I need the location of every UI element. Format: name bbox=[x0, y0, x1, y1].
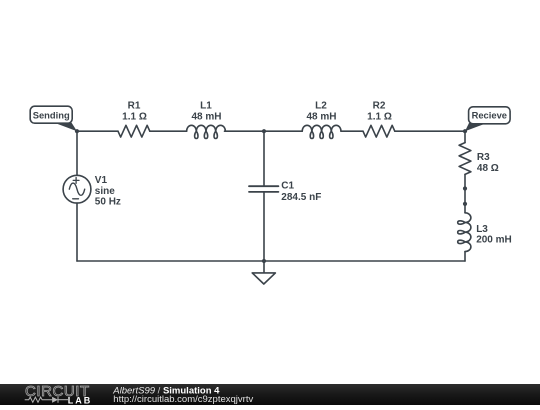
wire R1 to L1 bbox=[150, 130, 187, 132]
wire R3 to L3 (through junction dots) bbox=[464, 174, 466, 212]
CircuitLab logo schematic resistor-diode bbox=[25, 397, 68, 403]
svg-text:R2: R2 bbox=[373, 101, 386, 112]
inductor L3 bbox=[458, 213, 471, 252]
svg-text:1.1 Ω: 1.1 Ω bbox=[367, 112, 392, 123]
wire L1 to L2 through node C1-top bbox=[225, 130, 303, 132]
resistor R2 bbox=[363, 125, 395, 137]
inductor L2 bbox=[302, 125, 341, 138]
svg-text:R3: R3 bbox=[477, 152, 490, 163]
svg-text:L3: L3 bbox=[476, 224, 488, 235]
wire node B to R3 bbox=[464, 131, 466, 142]
svg-text:48 Ω: 48 Ω bbox=[477, 163, 499, 174]
junction dot upper (R3-L3) bbox=[463, 186, 467, 190]
svg-text:1.1 Ω: 1.1 Ω bbox=[122, 112, 147, 123]
svg-text:Recieve: Recieve bbox=[472, 110, 507, 121]
node B junction dot (Recieve) bbox=[463, 129, 467, 133]
wire V1 to bottom rail bbox=[76, 203, 78, 261]
svg-text:R1: R1 bbox=[128, 101, 141, 112]
junction node C1 top bbox=[262, 129, 266, 133]
svg-text:284.5 nF: 284.5 nF bbox=[281, 192, 321, 203]
svg-text:http://circuitlab.com/c9zptexq: http://circuitlab.com/c9zptexqjvrtv bbox=[113, 394, 253, 405]
wire L3 to bottom rail bbox=[464, 252, 466, 261]
footer bar bbox=[0, 384, 540, 405]
svg-text:Sending: Sending bbox=[33, 110, 70, 121]
svg-text:C1: C1 bbox=[281, 181, 294, 192]
node A junction dot (Sending) bbox=[75, 129, 79, 133]
svg-text:L2: L2 bbox=[315, 101, 327, 112]
wire R2 to node B bbox=[395, 130, 465, 132]
flag Sending bbox=[30, 106, 77, 131]
svg-text:V1: V1 bbox=[95, 175, 108, 186]
svg-text:48 mH: 48 mH bbox=[306, 112, 336, 123]
svg-text:L1: L1 bbox=[200, 101, 212, 112]
inductor L1 bbox=[187, 125, 226, 138]
capacitor C1 bbox=[249, 186, 278, 192]
flag Recieve bbox=[465, 107, 510, 131]
wire C1 bottom lead bbox=[263, 192, 265, 261]
svg-text:LAB: LAB bbox=[68, 395, 93, 405]
wire bottom rail bbox=[77, 260, 465, 262]
svg-text:48 mH: 48 mH bbox=[191, 112, 221, 123]
junction dot lower (R3-L3) bbox=[463, 202, 467, 206]
voltage source V1 bbox=[63, 175, 91, 203]
resistor R3 bbox=[459, 143, 471, 175]
svg-text:200 mH: 200 mH bbox=[476, 234, 512, 245]
wire node A to R1 bbox=[77, 130, 118, 132]
junction node C1 bottom bbox=[262, 259, 266, 263]
wire node A to V1 bbox=[76, 131, 78, 175]
resistor R1 bbox=[118, 125, 150, 137]
wire C1 top lead bbox=[263, 131, 265, 186]
wire L2 to R2 bbox=[341, 130, 363, 132]
ground bbox=[252, 261, 275, 284]
svg-text:50 Hz: 50 Hz bbox=[95, 196, 121, 207]
